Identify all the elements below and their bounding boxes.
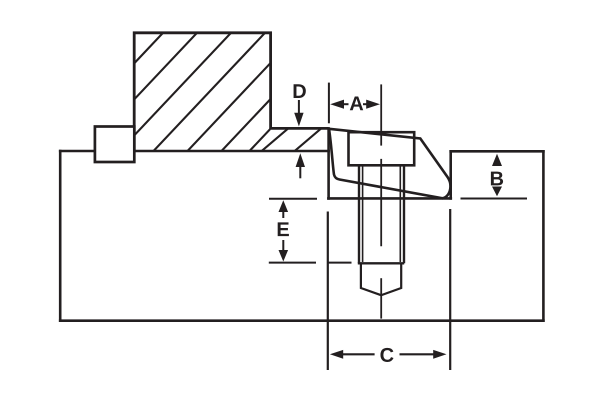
stud centerline xyxy=(380,84,382,318)
dim D up arrow xyxy=(296,153,305,167)
dim A label xyxy=(350,96,363,110)
dim B extension line xyxy=(461,198,528,200)
dim C right stem xyxy=(400,353,434,355)
pocket floor line xyxy=(328,197,450,200)
dim A extension line xyxy=(328,83,330,124)
pocket left wall / workpiece right edge xyxy=(327,128,330,198)
nut xyxy=(349,132,415,165)
stud thread outer left xyxy=(358,165,360,263)
stud thread inner left xyxy=(362,165,364,262)
dim C right arrow xyxy=(433,350,446,359)
dim C left extension line xyxy=(327,212,329,371)
fixture right edge xyxy=(542,151,545,320)
stud thread bottom xyxy=(358,262,404,264)
dim E up arrow xyxy=(279,200,289,212)
dim E bottom extension line xyxy=(269,262,316,264)
dim A right stem xyxy=(363,103,367,105)
dim C right extension line xyxy=(449,209,451,370)
dim E top extension line xyxy=(269,198,317,200)
dim D label xyxy=(294,84,306,98)
stud thread outer right xyxy=(403,165,405,263)
fixture top surface line xyxy=(60,150,328,153)
dim C left stem xyxy=(342,353,375,355)
right step top edge xyxy=(451,150,544,153)
dim A arrows xyxy=(330,100,380,109)
dim B label xyxy=(491,172,503,186)
dim E bottom extension line (right segment) xyxy=(327,262,351,264)
fixture body outline xyxy=(60,128,543,320)
dim B up arrow xyxy=(492,154,502,166)
right step left edge xyxy=(449,151,452,198)
dim C left arrow xyxy=(330,350,343,359)
fixture bottom edge xyxy=(60,319,543,322)
workpiece hatching (lip) xyxy=(251,120,331,160)
heel block (small square) xyxy=(95,127,134,163)
dim A left stem xyxy=(343,103,349,105)
dim B down arrow xyxy=(492,187,502,197)
dim E down arrow xyxy=(282,240,284,252)
dim C label xyxy=(380,348,393,362)
clamp strap xyxy=(329,129,450,199)
dim E label xyxy=(278,222,289,236)
stud thread inner right xyxy=(399,165,401,262)
workpiece hatching (tall part) xyxy=(38,20,373,165)
stud tip xyxy=(361,263,401,295)
dim D down arrow xyxy=(298,100,300,114)
workpiece (hatched block) outline xyxy=(134,33,328,151)
fixture left edge xyxy=(59,151,62,321)
